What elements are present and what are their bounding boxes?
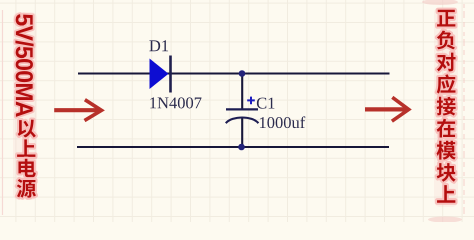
junction node bottom xyxy=(238,144,245,151)
right note char 对 xyxy=(437,53,456,72)
faint right edge artifact line xyxy=(463,4,465,218)
right note char 负 xyxy=(437,31,455,50)
right note char 在 xyxy=(437,119,455,138)
right note pink tint strip xyxy=(434,7,458,207)
label 1N4007 value xyxy=(150,97,201,108)
label D1 xyxy=(149,40,168,51)
wire capacitor branch upper segment xyxy=(241,74,243,110)
faint left edge artifact line xyxy=(2,10,4,215)
capacitor C1 top plate xyxy=(226,108,258,110)
capacitor plus polarity mark xyxy=(247,97,255,105)
diode D1 triangle (anode) xyxy=(150,59,169,90)
junction node top xyxy=(239,70,246,77)
right note char 正 xyxy=(437,10,455,27)
wire top rail xyxy=(78,72,390,74)
left note char 源 xyxy=(17,179,36,198)
left note char 电 xyxy=(18,159,35,177)
wire capacitor branch lower segment xyxy=(241,118,243,148)
left note char 上 xyxy=(17,139,35,157)
capacitor C1 curved bottom plate xyxy=(226,118,259,124)
label 1000uf value xyxy=(260,116,305,128)
right note char 上 xyxy=(437,185,455,203)
right note char 应 xyxy=(437,74,456,93)
right note char 模 xyxy=(437,141,456,160)
left note pink tint strip xyxy=(13,12,37,200)
left note char 以 xyxy=(18,120,36,138)
bottom right edge smudge artifact xyxy=(428,217,462,223)
right note char 块 xyxy=(437,163,456,182)
wire bottom rail xyxy=(77,146,389,148)
label C1 xyxy=(257,98,275,109)
left red arrow xyxy=(54,100,101,121)
top right edge smudge artifact xyxy=(422,0,458,5)
diode D1 cathode bar xyxy=(169,56,172,93)
right red arrow xyxy=(365,97,409,121)
left note rotated text 5V/500MA xyxy=(15,14,33,117)
right note char 接 xyxy=(437,97,456,116)
